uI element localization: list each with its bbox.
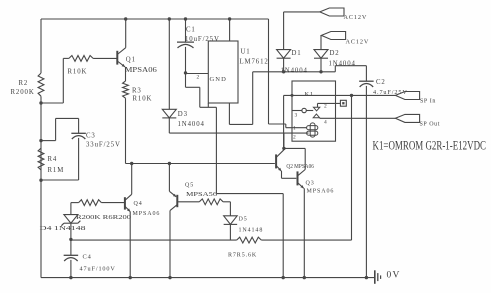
wire D1 to bus	[283, 58, 285, 72]
svg-text:D1: D1	[292, 50, 302, 57]
wire Q2 base wire	[126, 163, 275, 165]
svg-text:1: 1	[293, 126, 296, 132]
relay pin 2 NC contact	[313, 103, 340, 111]
svg-text:2: 2	[197, 75, 200, 81]
capacitor C4 47uF/100V	[64, 239, 116, 272]
wire Q2 emitter to Q3 base	[282, 171, 297, 178]
relay pin 4 NO contact	[313, 114, 395, 126]
capacitor C2 4.7uF/25V	[359, 66, 408, 96]
wire rail to D3	[168, 19, 170, 109]
node junction D2 bus	[319, 70, 322, 73]
wire D4 to node	[70, 223, 72, 239]
node junction C2 bottom rail	[365, 276, 368, 279]
wire left vertical (R2 branch)	[40, 19, 42, 278]
wire D3 to relay coil pin2	[169, 118, 308, 133]
wire rectified bus	[253, 66, 367, 72]
wire R5 to Q4 base	[101, 202, 125, 204]
wire ground column vertical	[215, 107, 217, 193]
relay pin 2 terminal square	[340, 100, 346, 106]
resistor R5 200K	[76, 200, 131, 221]
relay coil pin 1 wire	[286, 126, 307, 132]
node junction D1 bus	[282, 70, 285, 73]
node junction ground column bottom rail	[282, 276, 285, 279]
connector SP Out	[395, 114, 440, 127]
svg-text:R4: R4	[48, 156, 58, 163]
connector AC12V upper	[320, 8, 367, 21]
transistor Q5 MPSA56	[170, 183, 217, 211]
node junction Q3 emitter rail	[303, 276, 306, 279]
resistor R1 10K	[68, 56, 94, 76]
text K1 model	[373, 139, 487, 153]
wire Q1 collector to rail	[125, 19, 127, 48]
wire rail to U1 top pin	[229, 19, 231, 41]
svg-text:Q1: Q1	[126, 57, 136, 64]
svg-text:Q4: Q4	[134, 201, 143, 207]
svg-text:R1M: R1M	[48, 167, 65, 174]
wire Q2 collector up	[283, 133, 285, 148]
node junction D4 C4 R7	[69, 238, 72, 241]
svg-text:Q3: Q3	[306, 181, 315, 187]
wire R7 net right	[261, 239, 351, 241]
relay coil	[307, 123, 318, 137]
diode D4 zener 1N4148	[40, 215, 86, 232]
resistor R6	[199, 199, 223, 205]
wire Q5 base lead	[177, 201, 199, 203]
node junction Q2 collector	[282, 147, 285, 150]
node junction (41,181)	[39, 179, 42, 182]
transistor Q3 MPSA06	[298, 170, 335, 195]
svg-text:33uF/25V: 33uF/25V	[86, 142, 121, 149]
svg-text:MPSA06: MPSA06	[125, 67, 158, 74]
svg-text:R10K: R10K	[133, 96, 153, 103]
node junction SP-in branch	[350, 94, 353, 97]
capacitor C3 33uF/25V	[71, 133, 120, 149]
capacitor C1 10uF/25V	[177, 27, 220, 48]
wire top +V rail	[41, 18, 269, 20]
relay coil pin 2 label	[293, 135, 296, 141]
node junction U1 input rail	[228, 17, 231, 20]
svg-text:K1: K1	[305, 91, 315, 98]
svg-text:R3: R3	[132, 88, 142, 95]
node junction Q1 collector rail	[124, 17, 127, 20]
svg-text:D2: D2	[330, 50, 340, 57]
wire R6 to D5	[223, 202, 230, 216]
wire R1 left lead	[41, 58, 69, 103]
svg-text:SP In: SP In	[420, 99, 436, 105]
node junction SP-in box edge	[291, 94, 294, 97]
wire SP-in branch down	[351, 95, 353, 240]
connector SP In	[395, 92, 436, 105]
wire Q4 emitter down to rail	[129, 212, 131, 278]
diode D1 1N4004	[277, 50, 308, 75]
transistor Q4 MPSA06	[125, 197, 160, 217]
wire C3 top path	[41, 118, 79, 140]
node junction C1 / U1 pin2	[184, 71, 187, 74]
wire U1 pin2	[186, 74, 209, 81]
svg-text:2: 2	[324, 104, 327, 110]
connector AC12V lower	[321, 32, 369, 46]
wire rail to C1	[185, 19, 187, 42]
svg-text:D5: D5	[239, 217, 248, 223]
wire Q1 emitter to R3	[125, 67, 127, 81]
svg-text:2: 2	[293, 135, 296, 141]
wire U1 output bottom pin path	[229, 72, 252, 125]
svg-text:3: 3	[295, 113, 298, 119]
node junction Q4 emitter rail	[129, 276, 132, 279]
wire R5 left lead down	[71, 203, 79, 215]
wire AC12V to D1	[284, 12, 320, 50]
node junction Q5 collector rail	[168, 276, 171, 279]
node junction D3 rail	[168, 17, 171, 20]
svg-text:R200K R6R200: R200K R6R200	[76, 214, 131, 221]
svg-text:1N4004: 1N4004	[178, 121, 205, 128]
svg-text:R200K: R200K	[11, 89, 35, 96]
node junction C4 rail	[69, 276, 72, 279]
svg-text:R2: R2	[19, 80, 29, 87]
wire C1 bottom to node	[185, 47, 187, 73]
svg-text:R10K: R10K	[68, 69, 88, 76]
svg-text:47uF/100V: 47uF/100V	[80, 266, 116, 273]
svg-text:1N4148: 1N4148	[239, 228, 264, 234]
wire C2 bottom to rail	[365, 86, 367, 278]
wire SP In net	[284, 94, 396, 96]
wire Q5 collector down to rail	[169, 211, 171, 278]
relay pin 3 common contact	[292, 108, 313, 118]
wire bottom 0V rail	[41, 277, 375, 279]
resistor R4 1M	[38, 148, 64, 174]
svg-text:C4: C4	[83, 254, 92, 261]
node junction (41,103)	[39, 101, 42, 104]
wire R7 net left	[71, 238, 237, 241]
wire Q4 collector up	[125, 164, 132, 201]
resistor R3 10K	[123, 81, 153, 103]
svg-text:C3: C3	[86, 133, 96, 140]
svg-text:U1: U1	[241, 49, 251, 56]
relay K1 box	[292, 81, 336, 141]
wire C4 bottom to rail	[70, 260, 72, 278]
node junction Q4 collector	[130, 162, 133, 165]
svg-text:K1=OMROM G2R-1-E12VDC: K1=OMROM G2R-1-E12VDC	[373, 139, 487, 153]
wire ground column to bottom rail	[216, 194, 283, 278]
svg-text:MPSA06: MPSA06	[307, 189, 335, 195]
svg-text:C1: C1	[186, 27, 196, 34]
wire R1 to Q1 base	[93, 57, 117, 59]
wire Q3 emitter down to rail	[303, 188, 305, 277]
svg-text:Q2 MPSA06: Q2 MPSA06	[286, 163, 314, 170]
wire AC12V to D2	[320, 35, 322, 49]
svg-text:Q5: Q5	[185, 183, 194, 189]
ground 0V symbol	[375, 270, 401, 284]
svg-text:0V: 0V	[387, 271, 401, 281]
op-amp U1 LM7612 regulator box	[208, 41, 268, 103]
svg-text:R7R5.6K: R7R5.6K	[228, 253, 257, 259]
wire SP-in corner down to Q2 collector node	[283, 95, 285, 148]
resistor R2	[11, 73, 44, 96]
svg-text:C2: C2	[376, 79, 386, 86]
svg-text:10uF/25V: 10uF/25V	[185, 36, 220, 43]
resistor R7 5.6K	[228, 237, 261, 258]
svg-text:AC12V: AC12V	[344, 14, 368, 21]
node junction (41,140.6)	[39, 139, 42, 142]
diode D5 1N4148	[224, 216, 264, 234]
svg-text:GND: GND	[210, 76, 227, 83]
svg-text:LM7612: LM7612	[240, 59, 269, 66]
svg-text:MPSA06: MPSA06	[133, 211, 161, 217]
svg-text:MPSA56: MPSA56	[186, 191, 217, 198]
svg-text:4: 4	[324, 120, 327, 126]
wire rail right vertical to coil	[269, 19, 286, 128]
transistor Q2 MPSA06	[276, 150, 314, 171]
wire Q5 emitter from base-wire node	[169, 164, 176, 197]
node junction C1 rail	[184, 17, 187, 20]
svg-text:D4 1N4148: D4 1N4148	[40, 225, 86, 232]
wire D2 to bus	[320, 58, 322, 72]
wire U1 GND staircase to ground column	[186, 73, 217, 107]
wire D5 to R7 wire	[229, 224, 231, 240]
wire R3 down to Q2 base wire	[125, 98, 127, 163]
diode D2 1N4004	[314, 50, 356, 68]
svg-text:SP Out: SP Out	[420, 122, 441, 128]
svg-text:1N4004: 1N4004	[329, 61, 356, 68]
node junction Q5 emitter branch	[168, 162, 171, 165]
svg-text:AC12V: AC12V	[346, 39, 370, 46]
svg-text:D3: D3	[178, 111, 188, 118]
transistor Q1 MPSA06	[117, 48, 157, 74]
wire C3 bottom path	[41, 138, 79, 180]
wire Q3 collector path	[284, 148, 305, 169]
diode D3 1N4004	[162, 109, 205, 128]
